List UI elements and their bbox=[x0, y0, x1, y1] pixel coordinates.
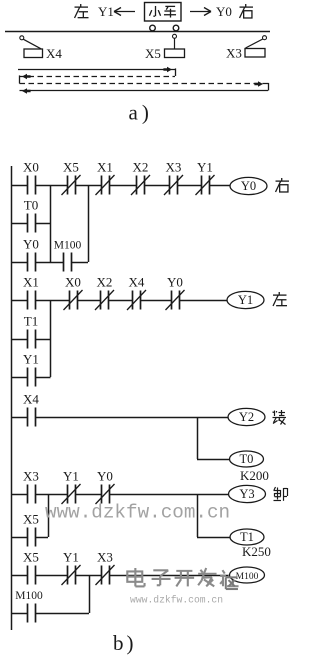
svg-text:X5: X5 bbox=[63, 160, 79, 175]
svg-text:Y1: Y1 bbox=[23, 352, 39, 367]
M100 parallel row wire: rail to M100 bbox=[11, 613, 27, 615]
watermark logo blob bbox=[226, 576, 238, 578]
contact Y0 rung2 (NC) bbox=[166, 275, 185, 311]
coil Y1 bbox=[227, 291, 264, 308]
svg-text:Y1: Y1 bbox=[63, 550, 79, 565]
contact X5 (NC) bbox=[62, 160, 81, 196]
label 左 rung 2 bbox=[278, 292, 280, 295]
contact Y1 parallel (NO) bbox=[23, 352, 39, 387]
motion line 4 (solid, return left) with arrow bbox=[20, 88, 269, 93]
svg-text:K200: K200 bbox=[240, 468, 269, 483]
branch wire vertical node B (x=88) rung1 to Y0/M100 row bbox=[88, 185, 90, 262]
wire M100 to node B vertical bbox=[72, 262, 89, 264]
svg-text:Y1: Y1 bbox=[197, 160, 213, 175]
svg-text:M100: M100 bbox=[15, 590, 43, 602]
wire X3 to Y1 (node D x=48) bbox=[35, 494, 67, 496]
contact X4 rung2 (NC) bbox=[127, 275, 146, 311]
wire M100 to node E vertical bbox=[35, 613, 89, 615]
wire X5 to node D vertical bbox=[35, 537, 48, 539]
svg-text:Y1: Y1 bbox=[63, 469, 79, 484]
contact X5 parallel (NO) bbox=[23, 512, 39, 547]
motion line 2 (dashed, back left) with arrow bbox=[20, 74, 176, 84]
rung 2 wire: rail to X1 bbox=[11, 300, 27, 302]
branch wire vertical node A (x=50.5) rung1 to Y0/M100 row bbox=[50, 185, 52, 262]
contact X5 rung5 (NO) bbox=[23, 550, 39, 585]
svg-text:www.dzkfw.com.cn: www.dzkfw.com.cn bbox=[45, 502, 230, 524]
svg-text:X4: X4 bbox=[23, 392, 39, 407]
coil T0 bbox=[230, 451, 264, 467]
branch wire vertical node C (x=50.5) rung2 to Y1 row bbox=[50, 300, 52, 377]
svg-text:X5: X5 bbox=[23, 550, 39, 565]
contact M100 (NO) bbox=[54, 240, 82, 272]
svg-text:X5: X5 bbox=[145, 46, 161, 61]
svg-text:X2: X2 bbox=[97, 275, 113, 290]
wire X4 to Y0 bbox=[141, 300, 172, 302]
svg-text:www.dzkfw.com.cn: www.dzkfw.com.cn bbox=[130, 595, 223, 606]
cart wheel left bbox=[150, 25, 156, 31]
wire Y0 to coil Y3 bbox=[109, 494, 229, 496]
contact X4 rung3 (NO) bbox=[23, 392, 39, 427]
wire T1 to node C vertical bbox=[35, 339, 51, 341]
svg-text:K250: K250 bbox=[242, 544, 271, 559]
contact X2 (NC) bbox=[131, 160, 150, 196]
svg-text:Y0: Y0 bbox=[23, 237, 39, 252]
Y1 row wire: rail to Y1 bbox=[11, 377, 27, 379]
wire X2 to X4 bbox=[109, 300, 133, 302]
limit switch X3 bbox=[226, 36, 267, 61]
arrow right (Y0 direction) bbox=[190, 8, 211, 16]
contact Y0 rung4 (NC) bbox=[96, 469, 115, 505]
coil Y3 bbox=[229, 485, 266, 502]
rung 1 wire: rail to X0 bbox=[11, 185, 27, 187]
svg-text:X3: X3 bbox=[166, 160, 182, 175]
svg-text:Y0: Y0 bbox=[97, 469, 113, 484]
wire Y1 to coil Y0 bbox=[209, 185, 230, 187]
svg-text:T1: T1 bbox=[240, 530, 254, 544]
svg-text:T1: T1 bbox=[24, 314, 38, 329]
svg-text:X2: X2 bbox=[133, 160, 149, 175]
contact X1 (NC) bbox=[96, 160, 115, 196]
wire Y1 to X3 (node E x=89) bbox=[75, 575, 101, 577]
wire T0 to node A vertical bbox=[35, 223, 51, 225]
wire Y1 to Y0 bbox=[75, 494, 101, 496]
wire X0 to X5 (node A x=50.5) bbox=[35, 185, 67, 187]
svg-text:M100: M100 bbox=[54, 240, 82, 252]
branch wire vertical x=197 rung4 to T1 coil bbox=[197, 494, 199, 537]
svg-text:T0: T0 bbox=[240, 452, 254, 466]
svg-text:X1: X1 bbox=[97, 160, 113, 175]
branch wire vertical x=197 rung3 to T0 coil bbox=[197, 417, 199, 459]
contact Y1 rung4 (NC) bbox=[62, 469, 81, 505]
svg-text:X3: X3 bbox=[97, 550, 113, 565]
svg-text:X3: X3 bbox=[23, 469, 39, 484]
label 装 rung 3 bbox=[274, 411, 276, 417]
branch wire vertical node D (x=48) rung4 to X5 row bbox=[48, 494, 50, 537]
wire branch to coil T1 bbox=[197, 537, 230, 539]
wire X0 to X2 bbox=[77, 300, 101, 302]
motion line 1 (solid, right to X5) with arrow bbox=[18, 67, 176, 76]
cart wheel right bbox=[173, 25, 179, 31]
label 右 (right) top caption bbox=[245, 4, 247, 7]
svg-text:b): b) bbox=[113, 631, 137, 655]
coil Y0 bbox=[230, 177, 267, 194]
contact T1 (NO) bbox=[24, 314, 38, 349]
svg-text:X1: X1 bbox=[23, 275, 39, 290]
wire Y0 to M100 bbox=[35, 262, 64, 264]
label 右 rung 1 bbox=[281, 178, 283, 181]
wire Y1 to node C vertical bbox=[35, 377, 51, 379]
coil M100 bbox=[230, 567, 265, 583]
arrow left (Y1 direction) bbox=[114, 8, 135, 16]
contact Y1 (NC) bbox=[196, 160, 215, 196]
wire Y0 to coil Y1 bbox=[179, 300, 227, 302]
limit switch X5 bbox=[145, 34, 185, 61]
X5 parallel row wire: rail to X5 bbox=[11, 537, 27, 539]
wire X3 to coil M100 bbox=[109, 575, 230, 577]
track line bbox=[5, 31, 270, 33]
svg-text:X4: X4 bbox=[46, 46, 62, 61]
contact X0 rung2 (NC) bbox=[64, 275, 83, 311]
branch wire vertical node E (x=89) rung5 to M100 row bbox=[89, 575, 91, 613]
contact X0 (NO) bbox=[23, 160, 39, 195]
wire branch to coil T0 bbox=[197, 459, 229, 461]
svg-text:T0: T0 bbox=[24, 198, 38, 213]
cart box 小车 bbox=[145, 3, 182, 22]
svg-text:M100: M100 bbox=[236, 572, 259, 582]
contact X2 rung2 (NC) bbox=[95, 275, 114, 311]
coil Y2 bbox=[228, 408, 265, 425]
svg-text:Y3: Y3 bbox=[239, 487, 254, 501]
coil T1 bbox=[230, 529, 264, 545]
svg-text:X0: X0 bbox=[65, 275, 81, 290]
wire X5 to X1 (node B x=88) bbox=[75, 185, 101, 187]
contact X1 rung2 (NO) bbox=[23, 275, 39, 310]
contact T0 (NO) bbox=[24, 198, 38, 233]
wire X2 to X3 bbox=[145, 185, 170, 187]
rung 3 wire: rail to X4 bbox=[11, 417, 27, 419]
wire X3 to Y1 bbox=[178, 185, 202, 187]
wire X4 to coil Y2 bbox=[35, 417, 228, 419]
label 卸 rung 4 bbox=[274, 487, 276, 490]
svg-text:Y0: Y0 bbox=[216, 4, 232, 19]
svg-text:Y1: Y1 bbox=[98, 4, 114, 19]
contact X3 rung5 (NC) bbox=[96, 550, 115, 586]
svg-text:Y0: Y0 bbox=[167, 275, 183, 290]
label 左 (left) top caption bbox=[80, 4, 82, 7]
svg-text:X3: X3 bbox=[226, 46, 242, 61]
limit switch X4 bbox=[20, 36, 63, 61]
rung 4 wire: rail to X3 bbox=[11, 494, 27, 496]
wire X1 to X2 bbox=[109, 185, 137, 187]
contact Y0 (NO) bbox=[23, 237, 39, 272]
contact Y1 rung5 (NC) bbox=[62, 550, 81, 586]
svg-text:Y1: Y1 bbox=[238, 293, 253, 307]
contact X3 rung4 (NO) bbox=[23, 469, 39, 504]
svg-text:X0: X0 bbox=[23, 160, 39, 175]
svg-text:Y0: Y0 bbox=[241, 179, 256, 193]
Y0/M100 row wire: rail to Y0 bbox=[11, 262, 27, 264]
contact X3 (NC) bbox=[164, 160, 183, 196]
wire X5 to Y1 rung5 bbox=[35, 575, 67, 577]
wire X1 to X0 (node C x=50.5) bbox=[35, 300, 69, 302]
rung 5 wire: rail to X5 bbox=[11, 575, 27, 577]
watermark 电子开发社区 logo text bbox=[127, 568, 238, 586]
motion line 3 (dashed, right to X3) with arrow bbox=[20, 81, 269, 90]
svg-text:X4: X4 bbox=[129, 275, 145, 290]
svg-text:X5: X5 bbox=[23, 512, 39, 527]
svg-text:a): a) bbox=[129, 101, 153, 125]
T1 row wire: rail to T1 bbox=[11, 339, 27, 341]
contact M100 parallel (NO) bbox=[15, 590, 43, 623]
svg-text:Y2: Y2 bbox=[239, 410, 254, 424]
left power rail bbox=[11, 166, 13, 630]
T0 row wire: rail to T0 bbox=[11, 223, 27, 225]
